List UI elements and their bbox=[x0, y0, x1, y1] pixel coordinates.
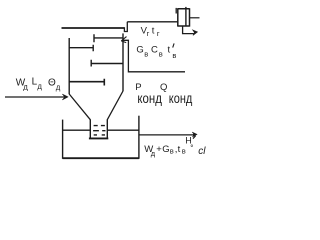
seal tank right wall bbox=[138, 116, 140, 159]
column cone right slope bbox=[107, 91, 123, 120]
svg-text:°: ° bbox=[190, 144, 193, 153]
tray 4 bbox=[69, 79, 104, 86]
tray 2 bbox=[69, 45, 93, 52]
water level line right of tube bbox=[107, 129, 139, 131]
seal tank left wall bbox=[62, 120, 64, 159]
liquid dashes in tube row 3 bbox=[94, 134, 105, 136]
barometric tube left wall bbox=[89, 119, 91, 138]
svg-text:Θ: Θ bbox=[48, 78, 56, 89]
liquid dashes in tube row 2 bbox=[93, 130, 105, 132]
prime tick after H bbox=[193, 136, 196, 139]
column cone left slope bbox=[69, 94, 90, 120]
wire: condenser outlet right bbox=[190, 17, 200, 19]
wire: reflux return line bbox=[124, 40, 185, 72]
svg-text:Q: Q bbox=[160, 82, 167, 93]
column left wall bbox=[68, 38, 70, 94]
arrowhead: overflow outlet bbox=[192, 132, 197, 137]
svg-text:г: г bbox=[157, 29, 160, 38]
svg-text:г: г bbox=[147, 29, 150, 38]
svg-text:в: в bbox=[172, 51, 176, 60]
condenser body bbox=[178, 8, 190, 26]
svg-text:G: G bbox=[162, 144, 169, 155]
column top plate bbox=[62, 27, 125, 29]
wire: vapor pipe to condenser bbox=[127, 21, 178, 23]
arrowhead: condensate drain bbox=[193, 30, 198, 36]
svg-text:конд: конд bbox=[169, 91, 193, 106]
arrowhead: reflux into column bbox=[121, 37, 126, 43]
barometric tube right wall bbox=[106, 119, 108, 138]
feed arrow line bbox=[5, 96, 66, 98]
svg-text:в: в bbox=[182, 147, 186, 156]
water level line left of tube bbox=[63, 129, 91, 131]
svg-text:t: t bbox=[168, 45, 171, 56]
svg-text:д: д bbox=[56, 83, 61, 92]
svg-text:t: t bbox=[152, 25, 155, 36]
condenser inlet tick bbox=[175, 8, 177, 14]
svg-text:д: д bbox=[23, 83, 28, 92]
svg-text:в: в bbox=[144, 49, 148, 58]
overflow outlet line bbox=[139, 134, 194, 136]
svg-text:д: д bbox=[37, 82, 42, 91]
tray 3 bbox=[91, 60, 123, 67]
svg-text:в: в bbox=[170, 147, 174, 156]
condenser inner baffle bbox=[185, 7, 187, 26]
wire: u-trap at column top to vapor pipe bbox=[124, 22, 127, 32]
svg-text:t: t bbox=[178, 144, 181, 155]
svg-text:д: д bbox=[151, 149, 156, 158]
liquid dashes in tube row 1 bbox=[94, 125, 105, 127]
wire: condensate drain with arrow bbox=[183, 26, 194, 34]
dot at overflow arrow tip bbox=[193, 133, 196, 136]
arrowhead: feed into column bbox=[62, 94, 68, 100]
column right wall bbox=[122, 33, 124, 91]
seal tank bottom bbox=[63, 157, 139, 159]
tray 1 bbox=[94, 34, 123, 42]
barometric tube bottom bbox=[89, 137, 108, 139]
svg-text:G: G bbox=[136, 45, 143, 56]
svg-text:конд: конд bbox=[137, 91, 162, 106]
svg-text:cl: cl bbox=[198, 146, 206, 157]
svg-text:C: C bbox=[151, 45, 158, 56]
svg-text:в: в bbox=[159, 49, 163, 58]
